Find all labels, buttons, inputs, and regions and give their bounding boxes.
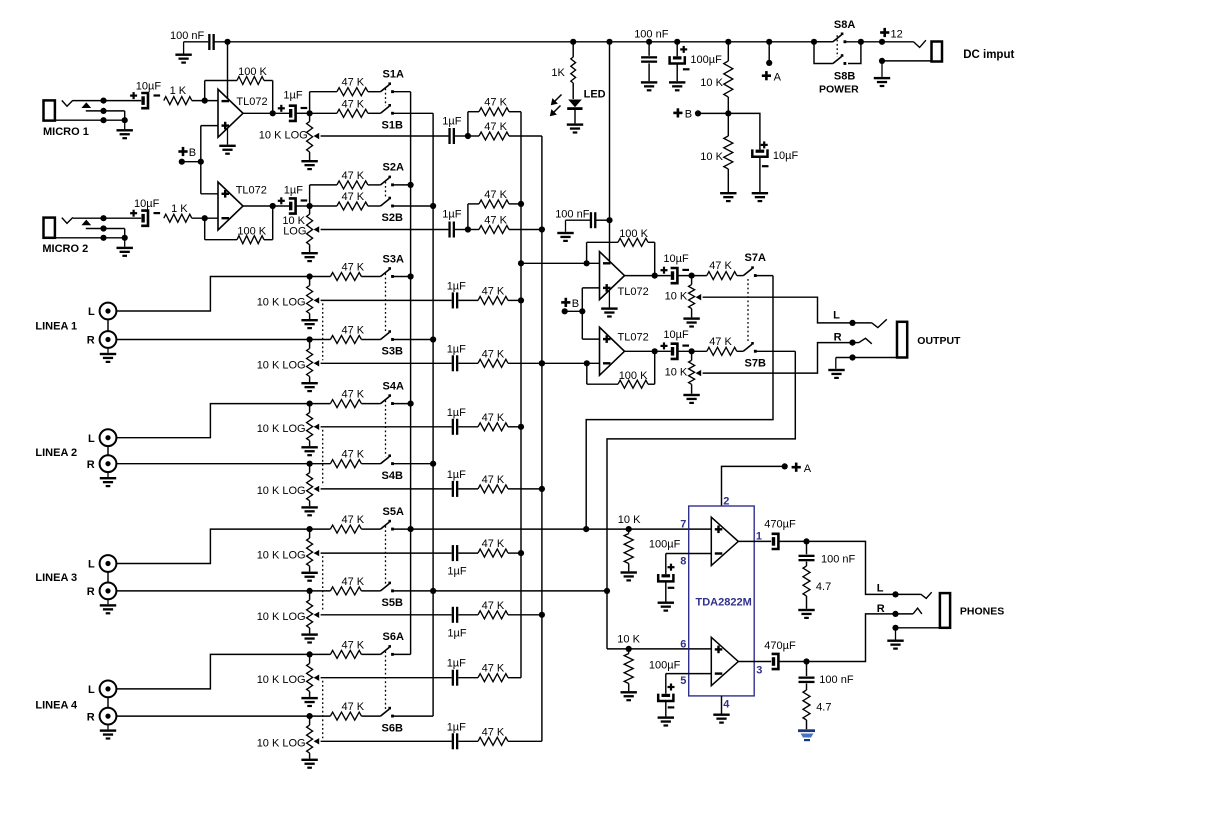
junction +B on vertical xyxy=(198,159,204,165)
wire mic2 + input xyxy=(201,193,218,195)
svg-text:100 nF: 100 nF xyxy=(819,674,854,686)
wire LINEA 4 R wiper row xyxy=(321,740,452,742)
resistor 47K ch2 to R bus xyxy=(468,229,479,231)
svg-text:TL072: TL072 xyxy=(618,286,649,298)
pot gang dotted link xyxy=(322,681,324,739)
wire S5B row extension xyxy=(433,590,607,592)
svg-text:L: L xyxy=(833,310,840,322)
ground xyxy=(683,394,699,396)
wire mic1 ring to sleeve xyxy=(124,111,126,120)
junction mic1 sleeve ground xyxy=(122,117,128,123)
wire S7A out xyxy=(756,275,773,277)
junction S4B bus B xyxy=(430,461,436,467)
wire mixer op2 output xyxy=(625,350,671,352)
svg-text:L: L xyxy=(88,559,95,571)
polarity - xyxy=(762,165,769,167)
junction R zobel xyxy=(803,658,809,664)
junction rail divider xyxy=(725,39,731,45)
wire S2B to bus xyxy=(394,205,434,207)
svg-text:1µF: 1µF xyxy=(447,343,466,355)
svg-text:1µF: 1µF xyxy=(447,407,466,419)
wire pin 8 line xyxy=(666,553,712,555)
ground xyxy=(301,506,317,508)
junction phones sleeve xyxy=(892,625,898,631)
junction output R xyxy=(849,340,855,346)
junction rail 100nF power xyxy=(646,39,652,45)
svg-text:S3B: S3B xyxy=(382,346,403,358)
resistor 10K phones L xyxy=(628,529,630,533)
wire phones ground line xyxy=(896,627,940,629)
svg-text:10µF: 10µF xyxy=(136,80,162,92)
wire mic1 sleeve line xyxy=(55,119,125,121)
junction mic1 ring xyxy=(100,108,106,114)
switch S6A xyxy=(381,645,394,656)
svg-text:S4A: S4A xyxy=(383,380,404,392)
resistor 10K divider lower xyxy=(727,113,729,136)
wire 470uF to phones R xyxy=(779,614,896,662)
potentiometer 10K LOG LINEA 2 L xyxy=(309,404,311,413)
wire pot to ground xyxy=(309,566,311,572)
switch gang dotted link xyxy=(385,273,387,332)
junction mic1 sleeve xyxy=(100,117,106,123)
junction S7A feed joins xyxy=(583,526,589,532)
switch S7B xyxy=(743,342,756,353)
wire phones R line xyxy=(896,613,914,615)
potentiometer 10K LOG LINEA 2 R xyxy=(309,464,311,473)
connector LINEA 4 R RCA xyxy=(100,708,117,725)
svg-text:47 K: 47 K xyxy=(482,663,505,675)
wire LED cathode xyxy=(574,110,576,123)
svg-text:LINEA 2: LINEA 2 xyxy=(35,447,77,459)
wire S4B to bus B xyxy=(394,463,434,465)
svg-text:47 K: 47 K xyxy=(342,576,365,588)
ground xyxy=(107,472,109,477)
junction mic2 sleeve xyxy=(100,235,106,241)
resistor 47K LINEA 4 L sum xyxy=(458,677,478,679)
wire bus B xyxy=(432,113,434,716)
wire S5A to bus A xyxy=(394,528,411,530)
ground xyxy=(720,192,736,194)
junction S3A bus A xyxy=(408,273,414,279)
resistor 47K S7B xyxy=(707,347,737,355)
junction +B power terminal xyxy=(695,110,701,116)
svg-text:4.7: 4.7 xyxy=(816,581,831,593)
svg-text:10µF: 10µF xyxy=(134,198,160,210)
capacitor 100uF power xyxy=(676,42,678,57)
polarity + xyxy=(668,686,675,688)
switch gang dotted link xyxy=(385,651,387,709)
switch S1B xyxy=(381,104,394,115)
capacitor 10uF +B filter xyxy=(728,113,760,149)
wire LINEA 1 jack link xyxy=(107,319,109,331)
wire row S1A xyxy=(310,91,337,93)
ground xyxy=(608,290,610,307)
svg-text:MICRO 1: MICRO 1 xyxy=(43,126,89,138)
resistor 100K mic1 feedback xyxy=(204,81,206,101)
wire row S2A xyxy=(310,184,337,186)
wire pin 1 output xyxy=(738,540,771,542)
connector LINEA 3 R RCA xyxy=(100,583,117,600)
junction mixer op1 inverting node xyxy=(584,260,590,266)
polarity + 10uF mic2 xyxy=(130,212,137,214)
svg-text:47 K: 47 K xyxy=(342,701,365,713)
svg-text:47 K: 47 K xyxy=(482,285,505,297)
ground xyxy=(881,61,883,77)
junction +12 terminal xyxy=(879,39,885,45)
junction mic1 inverting node xyxy=(202,98,208,104)
wire row S1B xyxy=(310,112,337,114)
wire +B stub power xyxy=(698,112,728,114)
svg-text:470µF: 470µF xyxy=(764,519,796,531)
resistor 47K S3B xyxy=(310,339,331,341)
junction R bus op2 xyxy=(539,360,545,366)
wire S2A to bus xyxy=(394,184,411,186)
pot wiper arrow xyxy=(696,370,702,376)
potentiometer 10K LOG ch1 xyxy=(309,113,311,121)
polarity - xyxy=(668,706,675,708)
wire cap to ch1 junction xyxy=(296,112,310,114)
wire LINEA 1 L route xyxy=(116,277,309,312)
wire mic2 tip hook xyxy=(62,217,73,223)
junction +B terminal mixer xyxy=(562,308,568,314)
polarity - 1uF mic1 xyxy=(301,107,308,109)
ground xyxy=(621,571,637,573)
svg-text:1µF: 1µF xyxy=(442,116,461,128)
svg-text:10 K LOG: 10 K LOG xyxy=(257,485,306,497)
wire ch2 branch up xyxy=(467,204,469,230)
ground xyxy=(301,252,317,254)
wire ch1 top branch xyxy=(468,111,479,113)
wire 470uF to phones L xyxy=(779,541,896,594)
wire mic1 ring line xyxy=(86,110,125,112)
svg-text:47 K: 47 K xyxy=(342,639,365,651)
wire op1 + input xyxy=(582,287,599,289)
potentiometer 10K mixer L out xyxy=(691,276,693,285)
svg-text:47 K: 47 K xyxy=(709,336,732,348)
node +B mixer xyxy=(561,301,570,304)
wire LINEA 3 R wiper row xyxy=(321,614,452,616)
polarity + xyxy=(668,566,675,568)
capacitor 100uF amp B bypass xyxy=(665,674,667,694)
svg-text:10µF: 10µF xyxy=(773,150,799,162)
switch S4A xyxy=(381,394,394,405)
svg-text:S7B: S7B xyxy=(745,358,766,370)
svg-text:100 K: 100 K xyxy=(238,66,267,78)
polarity - 10uF mic1 xyxy=(154,94,161,96)
svg-text:S5A: S5A xyxy=(383,506,404,518)
capacitor 100nF R zobel xyxy=(806,662,808,677)
svg-text:S8B: S8B xyxy=(834,70,855,82)
capacitor 100nF L zobel xyxy=(806,541,808,554)
connector LINEA 1 R RCA xyxy=(100,331,117,348)
junction mixer L fb/out xyxy=(652,273,658,279)
resistor 100K mixer R feedback xyxy=(586,363,588,384)
wire +B stub xyxy=(182,161,201,163)
wire ch2 wiper row xyxy=(321,229,449,231)
svg-text:10 K: 10 K xyxy=(618,514,641,526)
switch S2B xyxy=(381,197,394,208)
amp B minus xyxy=(715,672,723,674)
op-amp mixer R minus xyxy=(603,362,611,364)
junction L bus turn xyxy=(518,260,524,266)
wire mixer R wiper to output jack xyxy=(703,343,853,374)
svg-text:100 nF: 100 nF xyxy=(555,208,590,220)
svg-text:10µF: 10µF xyxy=(663,329,689,341)
junction output L xyxy=(849,320,855,326)
resistor 47K LINEA 4 R sum xyxy=(458,740,478,742)
svg-text:10 K LOG: 10 K LOG xyxy=(257,423,306,435)
wire LINEA 4 R route xyxy=(116,715,309,717)
wire output ground line xyxy=(836,357,897,359)
junction S3B bus B xyxy=(430,336,436,342)
resistor 47K S2B xyxy=(337,202,368,210)
wire R sum bus xyxy=(541,136,543,741)
node +12 supply rail xyxy=(214,41,833,43)
wire S3A to bus A xyxy=(394,276,411,278)
wire S7B feed down xyxy=(607,351,795,649)
svg-text:8: 8 xyxy=(680,555,686,567)
wire bus A xyxy=(410,92,412,655)
svg-text:47 K: 47 K xyxy=(342,262,365,274)
wire S7B out xyxy=(756,350,795,352)
junction LINEA 1 R pot xyxy=(307,336,313,342)
capacitor 1uF LINEA 1 L xyxy=(452,292,454,308)
polarity - xyxy=(683,68,690,70)
svg-text:TDA2822M: TDA2822M xyxy=(696,596,752,608)
svg-text:100µF: 100µF xyxy=(690,54,722,66)
resistor 4.7 R zobel xyxy=(806,683,808,690)
svg-text:47 K: 47 K xyxy=(342,77,365,89)
svg-text:47 K: 47 K xyxy=(482,726,505,738)
svg-text:1 K: 1 K xyxy=(171,203,188,215)
wire phones R hook xyxy=(913,608,922,614)
ground xyxy=(658,602,674,604)
wire LINEA 2 L wiper row xyxy=(321,426,452,428)
wire LINEA 1 L wiper row xyxy=(321,299,452,301)
node +B power xyxy=(673,112,682,115)
svg-text:S4B: S4B xyxy=(382,470,403,482)
wire pot to ground xyxy=(309,501,311,507)
connector LINEA 2 L RCA xyxy=(100,429,117,446)
junction rail LED branch xyxy=(570,39,576,45)
polarity + xyxy=(761,144,768,146)
junction LINEA 2 L pot xyxy=(307,401,313,407)
svg-text:A: A xyxy=(774,72,782,84)
junction +A terminal xyxy=(766,60,772,66)
polarity + xyxy=(661,345,668,347)
svg-text:4: 4 xyxy=(723,699,730,711)
svg-text:OUTPUT: OUTPUT xyxy=(917,335,961,347)
junction S5B row to S7B feed xyxy=(604,588,610,594)
junction 100nF decoupling xyxy=(606,217,612,223)
ground xyxy=(669,81,685,83)
junction mic1 tip xyxy=(100,98,106,104)
junction 10K phones L xyxy=(626,526,632,532)
wire pot to ground xyxy=(691,309,693,318)
svg-text:R: R xyxy=(87,586,95,598)
capacitor 1uF LINEA 3 R xyxy=(452,607,454,623)
svg-text:S2A: S2A xyxy=(383,162,404,174)
ground xyxy=(124,120,126,129)
junction +A phones terminal xyxy=(782,463,788,469)
wire +B stub mixer xyxy=(565,310,583,312)
ground blue xyxy=(798,729,815,741)
wire LINEA 3 R route xyxy=(116,590,309,592)
junction LINEA 1 L sum bus xyxy=(518,297,524,303)
potentiometer 10K LOG ch2 xyxy=(309,206,311,214)
potentiometer 10K LOG LINEA 4 L xyxy=(309,654,311,663)
wire DC jack return xyxy=(882,60,932,62)
wire S7A feed down xyxy=(586,276,773,529)
ground xyxy=(713,714,729,716)
svg-text:470µF: 470µF xyxy=(764,640,796,652)
capacitor 470uF R out xyxy=(772,657,775,666)
wire LINEA 2 R wiper row xyxy=(321,488,452,490)
wire S1B to bus xyxy=(394,112,434,114)
junction S5A bus A xyxy=(408,526,414,532)
svg-text:LINEA 1: LINEA 1 xyxy=(35,321,77,333)
svg-text:L: L xyxy=(877,583,884,595)
wire pin 4 ground xyxy=(721,696,723,714)
pot gang dotted link xyxy=(322,303,324,360)
wire +12 to DC jack hook xyxy=(882,41,913,43)
svg-text:7: 7 xyxy=(680,519,686,531)
svg-text:12: 12 xyxy=(891,29,903,41)
switch S6B xyxy=(381,707,394,718)
junction DC return xyxy=(879,58,885,64)
svg-text:10 K LOG: 10 K LOG xyxy=(257,674,306,686)
connector DC input jack xyxy=(932,42,943,62)
ground xyxy=(567,123,583,125)
switch S5A xyxy=(381,520,394,531)
wire mic opamp V+ drop xyxy=(227,42,229,99)
svg-text:100µF: 100µF xyxy=(649,539,681,551)
wire 100nF to ground stub xyxy=(184,41,209,43)
mic1 plug arrow xyxy=(81,102,91,108)
node +A phones xyxy=(792,466,801,469)
junction LINEA 4 L pot xyxy=(307,651,313,657)
resistor 1K mic2 xyxy=(164,214,192,222)
svg-text:1µF: 1µF xyxy=(442,209,461,221)
op-amp mixer R plus xyxy=(603,335,611,343)
resistor 47K ch1 to L bus xyxy=(479,108,509,116)
junction ch2 L bus xyxy=(518,201,524,207)
op-amp mic2 plus xyxy=(222,190,230,198)
junction mixer R fb/out xyxy=(652,348,658,354)
svg-text:47 K: 47 K xyxy=(342,191,365,203)
junction mic2 tip xyxy=(100,215,106,221)
wire cap to S7B node xyxy=(678,350,707,352)
capacitor 1uF ch2 sum xyxy=(448,222,450,238)
resistor 47K ch2 to L bus xyxy=(479,200,509,208)
wire S3B to bus B xyxy=(394,339,434,341)
wire ch1 branch up xyxy=(467,112,469,136)
pot wiper arrow xyxy=(314,738,320,744)
svg-text:47 K: 47 K xyxy=(342,98,365,110)
wire op2 + input xyxy=(582,338,599,340)
wire L sum bus xyxy=(520,112,522,678)
svg-text:LOG: LOG xyxy=(283,225,306,237)
wire mic2 output xyxy=(243,205,289,207)
junction rail 100uF xyxy=(674,39,680,45)
ground xyxy=(641,81,657,83)
polarity + 1uF mic1 xyxy=(278,107,285,109)
wire LINEA 3 L route xyxy=(116,529,309,563)
amp A minus xyxy=(715,552,723,554)
junction output sleeve xyxy=(849,354,855,360)
switch gang dotted link S7 xyxy=(747,279,749,343)
wire cap to ch2 junction xyxy=(296,205,310,207)
ground xyxy=(683,317,699,319)
wire pot to ground xyxy=(309,691,311,697)
svg-text:47 K: 47 K xyxy=(342,170,365,182)
amp B plus xyxy=(715,646,723,654)
connector LINEA 1 L RCA xyxy=(100,303,117,320)
wire S1A to bus xyxy=(394,91,411,93)
junction LINEA 1 L pot xyxy=(307,273,313,279)
junction ch2 level node xyxy=(307,203,313,209)
wire LINEA 3 L wiper row xyxy=(321,552,452,554)
switch gang dotted link xyxy=(385,400,387,456)
potentiometer 10K LOG LINEA 3 R xyxy=(309,591,311,600)
switch S5B xyxy=(381,582,394,593)
svg-text:TL072: TL072 xyxy=(236,184,267,196)
pot wiper arrow ch2 xyxy=(314,226,320,232)
svg-text:47 K: 47 K xyxy=(342,449,365,461)
resistor 47K LINEA 3 R sum xyxy=(458,614,478,616)
connector MICRO 1 jack xyxy=(44,100,55,120)
wire LINEA 4 L route xyxy=(116,654,309,689)
junction ch2 R bus xyxy=(539,226,545,232)
resistor 47K S5B xyxy=(310,590,331,592)
wire pot to ground xyxy=(309,441,311,447)
svg-text:1µF: 1µF xyxy=(447,721,466,733)
wire pot to ground xyxy=(691,384,693,394)
ground xyxy=(565,220,567,232)
wire pot to ground xyxy=(309,628,311,634)
svg-text:L: L xyxy=(88,306,95,318)
resistor 1K LED xyxy=(572,42,574,57)
svg-text:100 nF: 100 nF xyxy=(634,28,669,40)
pot wiper arrow xyxy=(696,294,702,300)
wire row S2B xyxy=(310,205,337,207)
capacitor 10uF mixer L out xyxy=(671,271,674,280)
junction LINEA 1 R sum bus xyxy=(539,360,545,366)
ground xyxy=(301,160,317,162)
op-amp mic1 minus xyxy=(222,100,230,102)
junction mic2 ring xyxy=(100,225,106,231)
pot wiper arrow xyxy=(314,424,320,430)
junction mixer R level node xyxy=(689,348,695,354)
svg-text:B: B xyxy=(189,147,196,159)
svg-text:S7A: S7A xyxy=(745,252,766,264)
svg-text:S8A: S8A xyxy=(834,19,855,31)
wire S8B branch xyxy=(814,42,833,64)
ground xyxy=(107,599,109,604)
wire pot to ground xyxy=(309,377,311,383)
op-amp TDA amp A xyxy=(711,517,738,565)
svg-text:47 K: 47 K xyxy=(484,97,507,109)
svg-text:10 K: 10 K xyxy=(617,633,640,645)
wire phones L row xyxy=(411,528,689,530)
junction mixer L level node xyxy=(689,273,695,279)
wire mic1 + input xyxy=(201,125,218,127)
ground xyxy=(895,628,897,640)
connector MICRO 2 jack xyxy=(44,218,55,238)
ground xyxy=(835,358,837,369)
wire L bus to op1 minus xyxy=(521,262,600,264)
junction ch1 level node xyxy=(307,110,313,116)
